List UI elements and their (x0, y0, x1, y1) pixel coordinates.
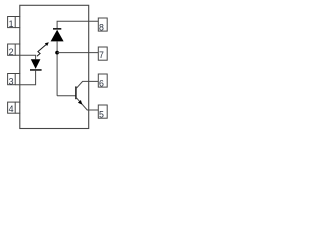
svg-text:2: 2 (9, 47, 14, 57)
pin 3 box (8, 74, 16, 85)
svg-text:8: 8 (99, 22, 104, 32)
photodiode cathode bar (53, 28, 61, 30)
pin 2 box (8, 44, 16, 55)
top rail: photodiode cathode to pin 8 (57, 21, 98, 28)
transistor collector to pin 6 (76, 81, 98, 88)
emitter arrowhead (78, 100, 82, 105)
wire pin4 to body (15, 112, 20, 114)
svg-text:1: 1 (9, 19, 14, 29)
junction node (anode / pin7 / base) (55, 51, 59, 55)
wire junction to pin 7 (57, 52, 98, 54)
wire pin2 top edge to body (15, 43, 20, 45)
LED cathode bar (30, 69, 42, 71)
svg-text:6: 6 (99, 78, 104, 88)
IC body outline (20, 5, 89, 128)
pin 7 box (98, 47, 107, 60)
background (0, 0, 110, 137)
pin 1 box (8, 17, 16, 28)
wire pin4 top edge to body (15, 101, 20, 103)
LED D1 (emitter diode, pins 2-3) (31, 59, 41, 69)
svg-text:3: 3 (9, 76, 14, 86)
pin 5 box (98, 105, 107, 118)
transistor Q1 base bar (75, 86, 77, 99)
light arrow (zigzag) (37, 45, 46, 57)
transistor emitter to pin 5 (76, 97, 98, 110)
wire pin1 top edge to body (15, 16, 20, 18)
wire pin2 to LED anode (15, 55, 35, 59)
svg-text:7: 7 (99, 50, 104, 60)
wire photodiode anode down to base (56, 41, 58, 95)
wire LED cathode to pin3 (15, 71, 35, 85)
wire base horizontal (57, 95, 76, 97)
svg-text:5: 5 (99, 109, 104, 119)
pin 6 box (98, 74, 107, 87)
pin 4 box (8, 102, 16, 113)
pin 8 box (98, 18, 107, 31)
wire pin1 to body (15, 27, 20, 29)
wire pin3 top edge to body (15, 73, 20, 75)
photodiode D2 (pointing up) (51, 30, 64, 42)
svg-text:4: 4 (9, 104, 14, 114)
